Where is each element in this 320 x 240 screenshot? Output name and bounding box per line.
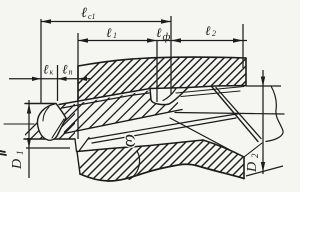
dim lc1 line xyxy=(41,21,171,23)
lower seam double lines xyxy=(88,114,240,140)
dimension lines xyxy=(9,16,283,178)
svg-text:2: 2 xyxy=(212,29,216,38)
middle wedge bottom edge M3 xyxy=(64,110,182,134)
left rod outline xyxy=(25,103,56,105)
upper band outline xyxy=(78,57,246,66)
extension x40 xyxy=(40,19,42,103)
hatching middle wedge xyxy=(40,84,291,146)
left margin smudge xyxy=(0,151,6,155)
dim l1 line xyxy=(78,40,157,42)
svg-text:ℓ: ℓ xyxy=(62,62,68,77)
dim lphi + l2 line xyxy=(157,40,247,42)
hatching lower band xyxy=(52,118,320,196)
svg-text:к: к xyxy=(50,68,54,77)
flash bead at left end xyxy=(37,104,66,141)
svg-text:1: 1 xyxy=(15,151,25,156)
omega angle arc xyxy=(129,151,140,180)
right bore upper lines M7 M8 xyxy=(176,87,244,94)
D1 extensions xyxy=(26,147,70,149)
svg-text:D: D xyxy=(10,159,25,170)
svg-text:ф: ф xyxy=(163,31,171,43)
connector lower right xyxy=(244,143,262,157)
svg-text:ℓ: ℓ xyxy=(43,62,49,77)
lower right inner seam xyxy=(170,118,230,150)
right bore line M4 xyxy=(175,113,284,115)
D2 extensions xyxy=(246,85,281,87)
extension x171 xyxy=(170,16,172,94)
dim lk lp line xyxy=(9,78,90,80)
dim D1 vertical xyxy=(28,100,30,178)
lower band outline xyxy=(77,140,203,152)
svg-text:с1: с1 xyxy=(88,12,96,21)
extension x157 xyxy=(156,41,158,102)
dim D2 vertical xyxy=(262,70,264,174)
extension x243 xyxy=(242,24,244,68)
svg-text:2: 2 xyxy=(250,153,260,158)
svg-text:1: 1 xyxy=(113,31,117,40)
upper seam line M2 xyxy=(62,93,149,108)
extension x78 xyxy=(77,33,79,139)
svg-text:D: D xyxy=(245,162,260,173)
svg-text:ℓ: ℓ xyxy=(205,23,211,38)
hatching left rod xyxy=(8,102,163,152)
centerline left xyxy=(4,123,34,125)
svg-text:ℓ: ℓ xyxy=(81,6,87,21)
svg-text:п: п xyxy=(69,68,73,77)
svg-text:ℓ: ℓ xyxy=(106,25,112,40)
svg-text:ℓ: ℓ xyxy=(156,25,162,40)
weld flash bulge xyxy=(150,88,188,105)
wavy break line right end xyxy=(266,86,283,142)
steep double line right xyxy=(212,87,258,142)
upper seam line M1 xyxy=(59,89,150,105)
hatching upper band xyxy=(40,50,320,122)
extension x57.5 xyxy=(57,65,59,101)
step / notch left of lower band xyxy=(75,139,77,152)
svg-text:ω: ω xyxy=(121,134,142,148)
